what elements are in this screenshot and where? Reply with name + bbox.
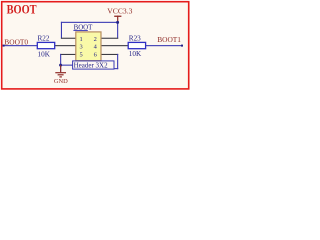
svg-text:BOOT: BOOT xyxy=(7,1,37,16)
ground GND xyxy=(54,65,68,85)
wire VCC right drop to pin 2 xyxy=(117,22,118,39)
svg-text:GND: GND xyxy=(54,78,68,85)
comment text frame Header 3X2 xyxy=(73,61,114,69)
node BOOT0 wire end xyxy=(3,45,5,47)
pin 3 wire (left row 2) xyxy=(55,45,76,46)
wire BOOT0 to R22 xyxy=(3,45,37,46)
wire pin 6 drop to ground rail xyxy=(117,54,118,69)
junction ground node xyxy=(59,64,62,67)
sheet border frame xyxy=(2,2,189,89)
svg-text:10K: 10K xyxy=(129,50,142,58)
wire pin 5 drop to ground xyxy=(60,54,61,72)
wire VCC horizontal run xyxy=(61,22,118,23)
svg-text:2: 2 xyxy=(94,36,97,43)
resistor R23 xyxy=(128,34,145,58)
svg-text:6: 6 xyxy=(94,51,97,58)
svg-text:BOOT1: BOOT1 xyxy=(157,35,181,44)
junction VCC node xyxy=(116,21,119,24)
svg-text:Header 3X2: Header 3X2 xyxy=(74,61,109,69)
wire R23 to BOOT1 xyxy=(146,45,182,46)
svg-text:5: 5 xyxy=(80,51,83,58)
wire ground rail stub xyxy=(60,65,73,66)
power symbol VCC3.3 xyxy=(107,6,132,22)
svg-text:R23: R23 xyxy=(129,34,141,42)
svg-text:BOOT0: BOOT0 xyxy=(4,37,28,46)
pin 6 wire (right row 3) xyxy=(101,54,118,55)
connector J header 3X2 body xyxy=(73,24,101,60)
svg-text:10K: 10K xyxy=(38,50,51,58)
svg-text:1: 1 xyxy=(80,36,83,43)
pin 2 wire (right row 1) xyxy=(101,38,118,39)
wire VCC left drop to pin 1 xyxy=(61,22,62,39)
wire pin 6 corner into frame xyxy=(114,68,118,69)
pin 5 wire (left row 3) xyxy=(60,54,76,55)
pin 4 wire (right row 2) xyxy=(101,45,128,46)
sheet background xyxy=(0,0,191,94)
svg-text:3: 3 xyxy=(80,44,83,51)
svg-text:VCC3.3: VCC3.3 xyxy=(107,6,132,15)
resistor R22 xyxy=(37,35,54,59)
node BOOT1 wire end xyxy=(181,45,183,47)
pin 1 wire (left row 1) xyxy=(61,38,76,39)
svg-text:R22: R22 xyxy=(38,35,50,43)
